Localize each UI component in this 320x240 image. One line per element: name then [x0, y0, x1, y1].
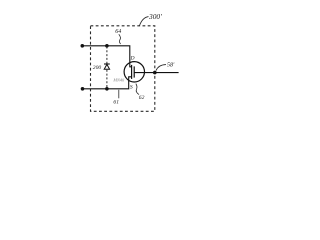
diode 200 cathode bar [104, 63, 110, 65]
svg-text:D: D [130, 55, 135, 61]
wire (dashed) diode branch upper [106, 47, 108, 64]
wire: drain rail [82, 46, 130, 63]
node: source terminal dot [81, 87, 85, 91]
dashed enclosure box 300 [91, 26, 155, 112]
svg-text:S: S [130, 85, 133, 91]
wire: source rail [83, 81, 129, 89]
svg-text:MN40: MN40 [112, 77, 125, 82]
leader from source area to label 62 [136, 84, 139, 95]
wire: gate lead [134, 72, 178, 74]
transistor source stub [129, 77, 132, 82]
transistor Q1 circle [124, 62, 144, 82]
wire (dashed) diode branch lower [106, 70, 108, 88]
svg-text:300': 300' [148, 12, 162, 21]
transistor channel bar [131, 65, 133, 79]
transistor drain stub [130, 63, 132, 67]
leader from gate dot to label 58' [156, 65, 166, 71]
svg-text:64: 64 [115, 28, 121, 35]
svg-text:62: 62 [139, 95, 145, 101]
transistor gate bar [133, 66, 135, 77]
leader from 64 to drain rail [119, 34, 121, 44]
diode 200 triangle [104, 64, 109, 69]
svg-text:61: 61 [113, 100, 119, 106]
svg-text:58': 58' [167, 63, 175, 69]
node: drain junction dot [105, 44, 109, 48]
svg-text:200: 200 [93, 65, 102, 71]
node: gate junction dot [153, 71, 157, 75]
node: drain terminal dot [81, 44, 85, 48]
node: source junction dot [105, 87, 109, 91]
leader from source rail to label 61 [118, 90, 120, 99]
leader to label 300 [140, 17, 149, 26]
